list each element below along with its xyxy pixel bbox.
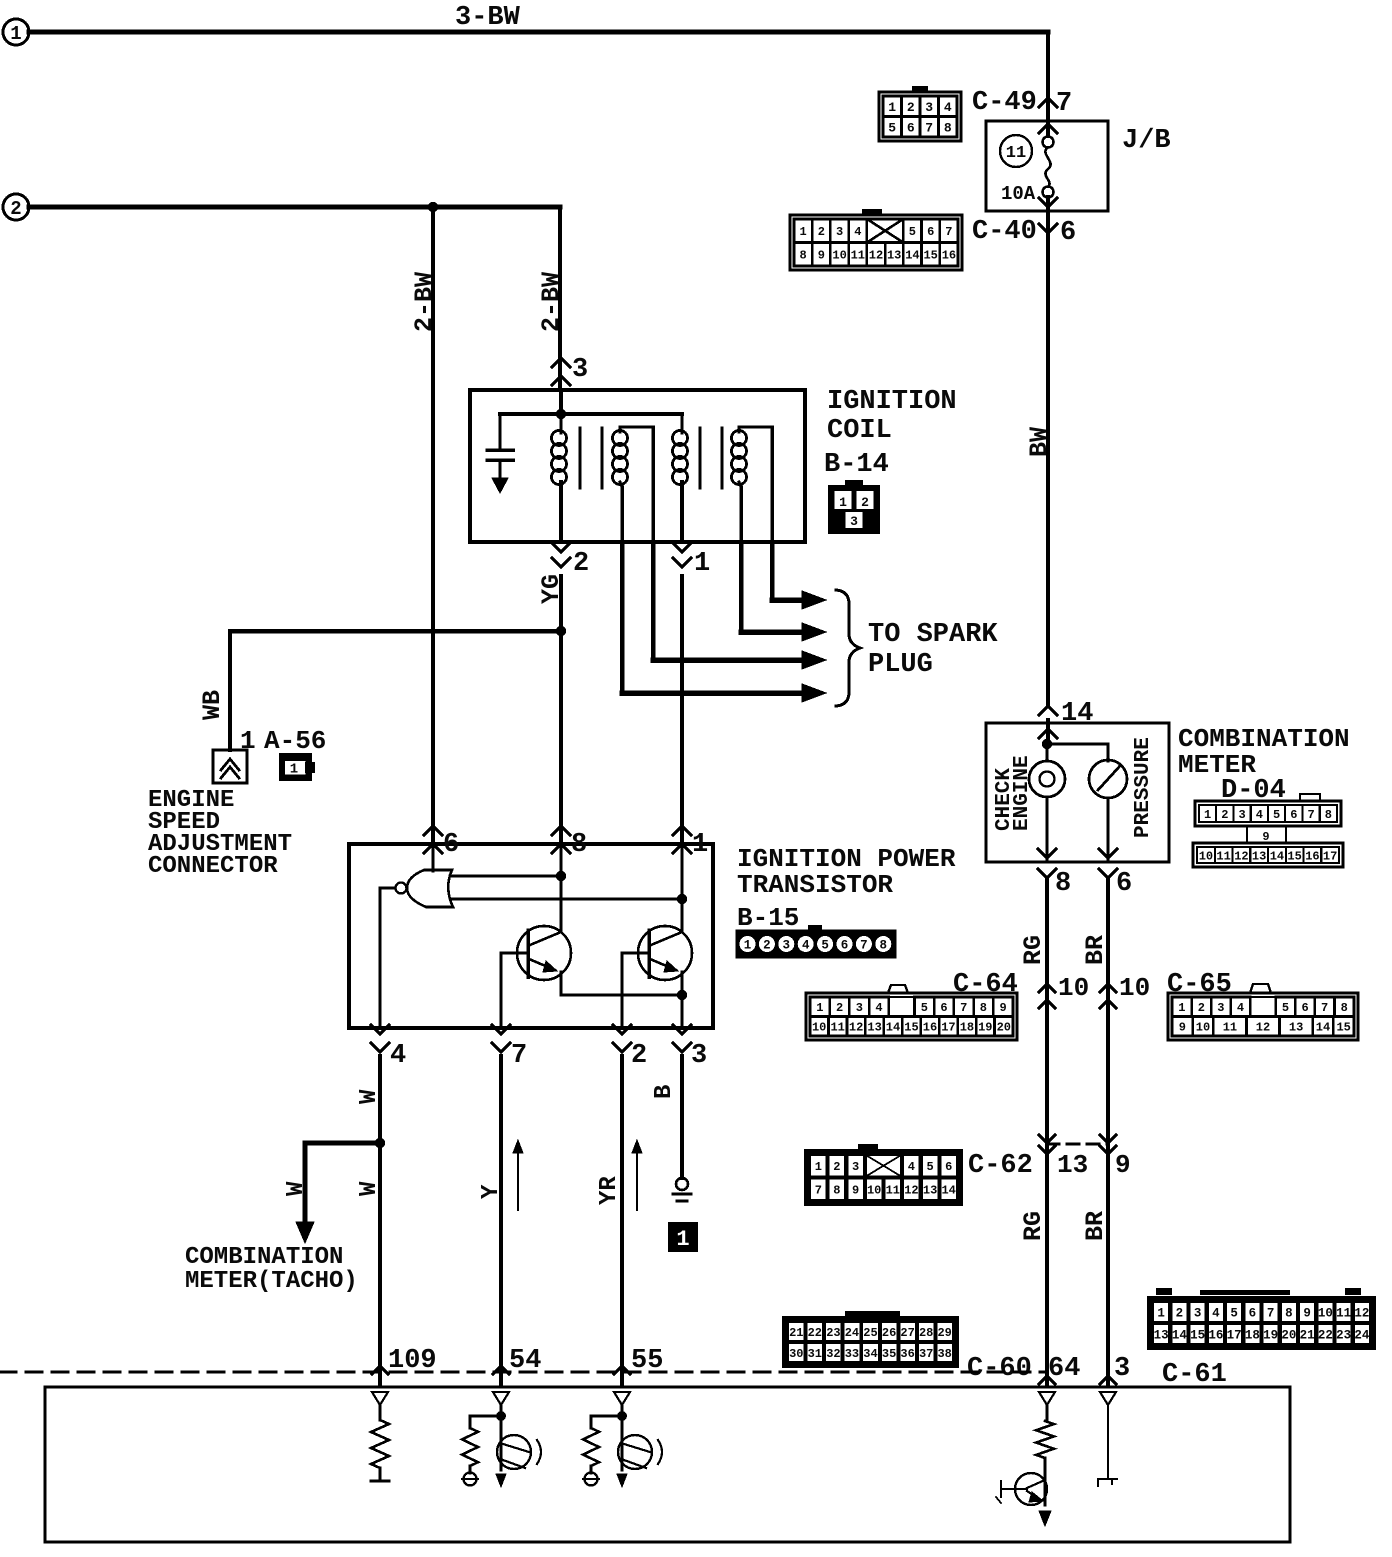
svg-text:23: 23 bbox=[1336, 1329, 1351, 1343]
svg-text:33: 33 bbox=[845, 1347, 859, 1361]
svg-text:6: 6 bbox=[907, 120, 915, 135]
svg-text:9: 9 bbox=[818, 249, 825, 263]
svg-text:2: 2 bbox=[763, 939, 771, 953]
svg-text:3: 3 bbox=[783, 939, 791, 953]
svg-text:1: 1 bbox=[10, 23, 21, 45]
svg-text:11: 11 bbox=[830, 1021, 844, 1035]
svg-text:4: 4 bbox=[944, 100, 952, 115]
svg-text:16: 16 bbox=[1305, 849, 1319, 863]
svg-text:7: 7 bbox=[815, 1184, 822, 1198]
svg-text:14: 14 bbox=[1172, 1329, 1188, 1343]
svg-text:5: 5 bbox=[909, 225, 916, 239]
svg-text:11: 11 bbox=[1223, 1021, 1237, 1035]
svg-text:3: 3 bbox=[850, 514, 858, 529]
svg-text:5: 5 bbox=[1273, 808, 1280, 822]
svg-text:15: 15 bbox=[1336, 1021, 1350, 1035]
svg-text:1: 1 bbox=[1204, 808, 1211, 822]
svg-text:11: 11 bbox=[1336, 1307, 1351, 1321]
svg-text:12: 12 bbox=[1256, 1021, 1270, 1035]
svg-text:2: 2 bbox=[1176, 1307, 1184, 1321]
svg-text:13: 13 bbox=[923, 1184, 937, 1198]
svg-text:18: 18 bbox=[960, 1021, 974, 1035]
svg-text:11: 11 bbox=[1216, 849, 1230, 863]
svg-text:20: 20 bbox=[997, 1021, 1011, 1035]
svg-text:10: 10 bbox=[1318, 1307, 1333, 1321]
svg-text:14: 14 bbox=[1061, 699, 1093, 729]
svg-text:6: 6 bbox=[841, 939, 849, 953]
svg-text:C-65: C-65 bbox=[1167, 970, 1232, 1000]
svg-text:8: 8 bbox=[1325, 808, 1332, 822]
svg-text:9: 9 bbox=[1179, 1021, 1186, 1035]
svg-text:10: 10 bbox=[832, 249, 846, 263]
svg-text:7: 7 bbox=[1267, 1307, 1275, 1321]
svg-text:17: 17 bbox=[941, 1021, 955, 1035]
svg-text:10: 10 bbox=[1119, 973, 1150, 1003]
svg-text:7: 7 bbox=[945, 225, 952, 239]
svg-text:2: 2 bbox=[1198, 1001, 1205, 1015]
svg-text:5: 5 bbox=[821, 939, 829, 953]
svg-text:17: 17 bbox=[1227, 1329, 1242, 1343]
svg-text:W: W bbox=[356, 1089, 383, 1104]
svg-text:15: 15 bbox=[904, 1021, 918, 1035]
svg-text:32: 32 bbox=[826, 1347, 840, 1361]
svg-text:10: 10 bbox=[1196, 1021, 1210, 1035]
svg-text:5: 5 bbox=[1282, 1001, 1289, 1015]
svg-text:16: 16 bbox=[942, 249, 956, 263]
svg-text:37: 37 bbox=[919, 1347, 933, 1361]
svg-text:25: 25 bbox=[863, 1326, 877, 1340]
svg-text:3: 3 bbox=[1114, 1354, 1130, 1384]
svg-text:1: 1 bbox=[290, 762, 298, 778]
svg-text:1: 1 bbox=[1157, 1307, 1165, 1321]
svg-text:TO SPARK: TO SPARK bbox=[868, 620, 998, 650]
svg-text:B-14: B-14 bbox=[824, 450, 889, 480]
svg-text:8: 8 bbox=[1055, 869, 1071, 899]
svg-text:9: 9 bbox=[1303, 1307, 1311, 1321]
svg-text:9: 9 bbox=[1115, 1150, 1131, 1180]
svg-text:BR: BR bbox=[1081, 1211, 1110, 1241]
svg-text:2: 2 bbox=[836, 1001, 843, 1015]
svg-text:13: 13 bbox=[1154, 1329, 1169, 1343]
svg-text:14: 14 bbox=[1316, 1021, 1330, 1035]
svg-text:2: 2 bbox=[907, 100, 915, 115]
svg-text:12: 12 bbox=[869, 249, 883, 263]
svg-text:13: 13 bbox=[867, 1021, 881, 1035]
svg-text:7: 7 bbox=[1321, 1001, 1328, 1015]
svg-text:64: 64 bbox=[1048, 1354, 1080, 1384]
svg-text:38: 38 bbox=[937, 1347, 951, 1361]
svg-text:CONNECTOR: CONNECTOR bbox=[148, 853, 278, 880]
svg-text:8: 8 bbox=[833, 1184, 840, 1198]
svg-text:35: 35 bbox=[882, 1347, 896, 1361]
svg-text:10A: 10A bbox=[1001, 183, 1036, 205]
svg-text:4: 4 bbox=[1237, 1001, 1244, 1015]
svg-text:6: 6 bbox=[945, 1160, 952, 1174]
svg-text:TRANSISTOR: TRANSISTOR bbox=[737, 870, 893, 900]
svg-text:16: 16 bbox=[923, 1021, 937, 1035]
svg-text:14: 14 bbox=[886, 1021, 900, 1035]
svg-text:24: 24 bbox=[845, 1326, 859, 1340]
svg-text:4: 4 bbox=[854, 225, 861, 239]
svg-text:19: 19 bbox=[1263, 1329, 1278, 1343]
svg-text:13: 13 bbox=[1252, 849, 1266, 863]
svg-text:8: 8 bbox=[1341, 1001, 1348, 1015]
svg-text:31: 31 bbox=[808, 1347, 822, 1361]
svg-text:3: 3 bbox=[856, 1001, 863, 1015]
svg-text:J/B: J/B bbox=[1122, 126, 1171, 156]
svg-text:6: 6 bbox=[1249, 1307, 1257, 1321]
svg-text:4: 4 bbox=[875, 1001, 882, 1015]
svg-text:22: 22 bbox=[808, 1326, 822, 1340]
svg-text:6: 6 bbox=[1116, 869, 1132, 899]
svg-text:27: 27 bbox=[900, 1326, 914, 1340]
svg-text:8: 8 bbox=[944, 120, 952, 135]
svg-text:21: 21 bbox=[1300, 1329, 1315, 1343]
svg-text:YR: YR bbox=[596, 1176, 623, 1205]
svg-text:1: 1 bbox=[694, 549, 710, 579]
svg-text:3: 3 bbox=[691, 1041, 707, 1071]
svg-text:1: 1 bbox=[240, 726, 256, 756]
svg-text:11: 11 bbox=[851, 249, 865, 263]
svg-text:3: 3 bbox=[1217, 1001, 1224, 1015]
svg-text:8: 8 bbox=[571, 830, 587, 860]
svg-text:1: 1 bbox=[839, 495, 847, 510]
svg-text:7: 7 bbox=[925, 120, 933, 135]
svg-text:4: 4 bbox=[802, 939, 810, 953]
svg-text:1: 1 bbox=[799, 225, 806, 239]
svg-text:5: 5 bbox=[921, 1001, 928, 1015]
svg-text:7: 7 bbox=[511, 1041, 527, 1071]
svg-text:2: 2 bbox=[818, 225, 825, 239]
svg-text:36: 36 bbox=[900, 1347, 914, 1361]
svg-text:1: 1 bbox=[744, 939, 752, 953]
svg-text:13: 13 bbox=[1057, 1150, 1088, 1180]
svg-text:12: 12 bbox=[904, 1184, 918, 1198]
svg-text:1: 1 bbox=[1178, 1001, 1185, 1015]
svg-text:11: 11 bbox=[886, 1184, 900, 1198]
svg-text:C-40: C-40 bbox=[972, 217, 1037, 247]
svg-text:BW: BW bbox=[1025, 427, 1054, 457]
svg-text:2: 2 bbox=[833, 1160, 840, 1174]
svg-text:C-60: C-60 bbox=[967, 1354, 1032, 1384]
svg-text:3: 3 bbox=[1194, 1307, 1202, 1321]
svg-text:10: 10 bbox=[1058, 973, 1089, 1003]
svg-text:7: 7 bbox=[1307, 808, 1314, 822]
svg-text:13: 13 bbox=[1289, 1021, 1303, 1035]
svg-text:3: 3 bbox=[1238, 808, 1245, 822]
svg-text:13: 13 bbox=[887, 249, 901, 263]
svg-text:18: 18 bbox=[1245, 1329, 1260, 1343]
svg-text:Y: Y bbox=[478, 1184, 505, 1199]
svg-text:26: 26 bbox=[882, 1326, 896, 1340]
svg-text:23: 23 bbox=[826, 1326, 840, 1340]
svg-text:15: 15 bbox=[923, 249, 937, 263]
svg-text:6: 6 bbox=[1290, 808, 1297, 822]
svg-text:RG: RG bbox=[1019, 935, 1048, 965]
svg-text:14: 14 bbox=[905, 249, 919, 263]
svg-text:5: 5 bbox=[888, 120, 896, 135]
svg-text:1: 1 bbox=[815, 1160, 822, 1174]
svg-text:2: 2 bbox=[10, 198, 21, 220]
svg-text:14: 14 bbox=[941, 1184, 955, 1198]
svg-text:5: 5 bbox=[926, 1160, 933, 1174]
svg-text:B-15: B-15 bbox=[737, 903, 799, 933]
svg-text:C-49: C-49 bbox=[972, 88, 1037, 118]
svg-text:6: 6 bbox=[1301, 1001, 1308, 1015]
svg-text:8: 8 bbox=[880, 939, 888, 953]
svg-text:8: 8 bbox=[1285, 1307, 1293, 1321]
svg-text:10: 10 bbox=[1199, 849, 1213, 863]
svg-text:3: 3 bbox=[925, 100, 933, 115]
svg-text:2: 2 bbox=[631, 1041, 647, 1071]
svg-text:10: 10 bbox=[812, 1021, 826, 1035]
svg-text:1: 1 bbox=[888, 100, 896, 115]
svg-text:C-64: C-64 bbox=[953, 970, 1018, 1000]
svg-text:16: 16 bbox=[1208, 1329, 1223, 1343]
svg-text:2-BW: 2-BW bbox=[410, 272, 439, 332]
svg-text:14: 14 bbox=[1270, 849, 1284, 863]
svg-text:C-62: C-62 bbox=[968, 1151, 1033, 1181]
svg-text:6: 6 bbox=[443, 830, 459, 860]
svg-text:19: 19 bbox=[978, 1021, 992, 1035]
svg-text:2: 2 bbox=[573, 549, 589, 579]
svg-text:2: 2 bbox=[861, 495, 869, 510]
svg-text:22: 22 bbox=[1318, 1329, 1333, 1343]
svg-text:B: B bbox=[651, 1085, 678, 1099]
svg-text:A-56: A-56 bbox=[264, 726, 326, 756]
svg-text:PLUG: PLUG bbox=[868, 650, 933, 680]
svg-text:21: 21 bbox=[789, 1326, 803, 1340]
svg-text:15: 15 bbox=[1287, 849, 1301, 863]
svg-text:4: 4 bbox=[1256, 808, 1263, 822]
svg-text:1: 1 bbox=[816, 1001, 823, 1015]
svg-text:W: W bbox=[356, 1181, 383, 1196]
svg-text:3: 3 bbox=[836, 225, 843, 239]
svg-text:7: 7 bbox=[860, 939, 868, 953]
svg-text:4: 4 bbox=[390, 1041, 406, 1071]
svg-text:COMBINATION: COMBINATION bbox=[185, 1244, 343, 1271]
svg-text:WB: WB bbox=[198, 690, 227, 720]
svg-text:10: 10 bbox=[867, 1184, 881, 1198]
svg-text:30: 30 bbox=[789, 1347, 803, 1361]
svg-text:9: 9 bbox=[999, 1001, 1006, 1015]
svg-text:8: 8 bbox=[980, 1001, 987, 1015]
svg-text:BR: BR bbox=[1081, 935, 1110, 965]
svg-text:8: 8 bbox=[799, 249, 806, 263]
svg-text:W: W bbox=[283, 1181, 310, 1196]
svg-text:1: 1 bbox=[692, 830, 708, 860]
svg-text:6: 6 bbox=[927, 225, 934, 239]
svg-text:6: 6 bbox=[940, 1001, 947, 1015]
svg-text:4: 4 bbox=[1212, 1307, 1220, 1321]
svg-text:COIL: COIL bbox=[827, 416, 892, 446]
svg-text:11: 11 bbox=[1006, 144, 1026, 163]
svg-text:6: 6 bbox=[1060, 218, 1076, 248]
svg-text:9: 9 bbox=[852, 1184, 859, 1198]
svg-text:7: 7 bbox=[960, 1001, 967, 1015]
svg-text:15: 15 bbox=[1190, 1329, 1205, 1343]
svg-text:3: 3 bbox=[572, 355, 588, 385]
svg-text:29: 29 bbox=[937, 1326, 951, 1340]
svg-text:ENGINE: ENGINE bbox=[1011, 755, 1034, 831]
svg-text:28: 28 bbox=[919, 1326, 933, 1340]
svg-text:PRESSURE: PRESSURE bbox=[1132, 737, 1155, 838]
svg-text:RG: RG bbox=[1019, 1211, 1048, 1241]
svg-text:34: 34 bbox=[863, 1347, 877, 1361]
svg-text:24: 24 bbox=[1354, 1329, 1370, 1343]
svg-text:IGNITION: IGNITION bbox=[827, 387, 957, 417]
svg-text:12: 12 bbox=[1354, 1307, 1369, 1321]
svg-text:2: 2 bbox=[1221, 808, 1228, 822]
svg-text:5: 5 bbox=[1230, 1307, 1238, 1321]
svg-text:17: 17 bbox=[1323, 849, 1337, 863]
svg-text:METER(TACHO): METER(TACHO) bbox=[185, 1268, 358, 1295]
svg-text:12: 12 bbox=[849, 1021, 863, 1035]
svg-text:1: 1 bbox=[676, 1227, 689, 1252]
svg-text:12: 12 bbox=[1234, 849, 1248, 863]
svg-text:20: 20 bbox=[1281, 1329, 1296, 1343]
svg-text:3: 3 bbox=[852, 1160, 859, 1174]
svg-text:4: 4 bbox=[908, 1160, 915, 1174]
svg-text:2-BW: 2-BW bbox=[537, 272, 566, 332]
svg-text:7: 7 bbox=[1056, 89, 1072, 119]
svg-text:3-BW: 3-BW bbox=[455, 3, 521, 33]
